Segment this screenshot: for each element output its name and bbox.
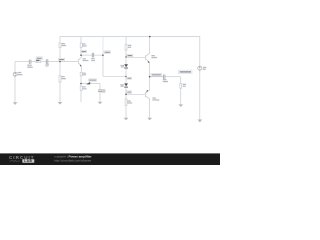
svg-text:http://circuitlab.com/c6wyee: http://circuitlab.com/c6wyee [54,158,91,162]
svg-text:LAB: LAB [24,159,32,163]
